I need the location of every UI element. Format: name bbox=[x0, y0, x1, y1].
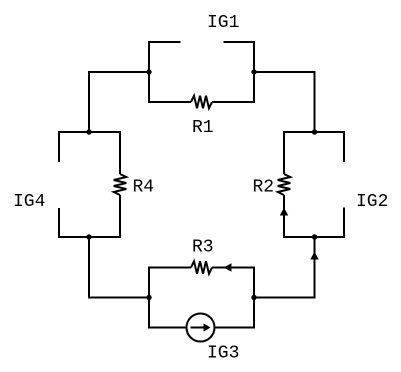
current arrow on R2 branch bbox=[280, 208, 288, 216]
svg-text:IG4: IG4 bbox=[13, 192, 45, 212]
svg-text:IG1: IG1 bbox=[207, 13, 239, 33]
svg-text:IG3: IG3 bbox=[207, 344, 239, 364]
current arrow on R3 branch bbox=[224, 263, 232, 271]
wire F-H (bottom-right corner) bbox=[254, 237, 315, 298]
node D bbox=[86, 234, 91, 239]
svg-text:IG2: IG2 bbox=[356, 192, 388, 212]
wire D-G (bottom-left corner) bbox=[89, 237, 149, 298]
current source IG1 (gap symbol, top) bbox=[149, 42, 254, 72]
node F bbox=[312, 234, 317, 239]
current arrow on wire F-H bbox=[310, 252, 318, 260]
current source IG2 (gap symbol, right) bbox=[315, 132, 345, 237]
node A bbox=[146, 69, 151, 74]
node C bbox=[86, 129, 91, 134]
node B bbox=[251, 69, 256, 74]
svg-text:R4: R4 bbox=[133, 178, 155, 198]
wire A-C (top-left corner) bbox=[89, 72, 149, 132]
resistor R2 bbox=[278, 132, 315, 237]
svg-text:R1: R1 bbox=[192, 118, 214, 138]
node E bbox=[312, 129, 317, 134]
svg-text:R3: R3 bbox=[192, 238, 214, 258]
current source IG4 (gap symbol, left) bbox=[59, 132, 89, 237]
svg-text:R2: R2 bbox=[253, 178, 275, 198]
resistor R1 bbox=[149, 72, 254, 108]
node H bbox=[251, 295, 256, 300]
node G bbox=[146, 295, 151, 300]
resistor R3 bbox=[149, 261, 254, 297]
resistor R4 bbox=[89, 132, 126, 237]
wire B-E (top-right corner) bbox=[254, 72, 315, 132]
current source IG3 (circle symbol, bottom) bbox=[149, 298, 254, 342]
